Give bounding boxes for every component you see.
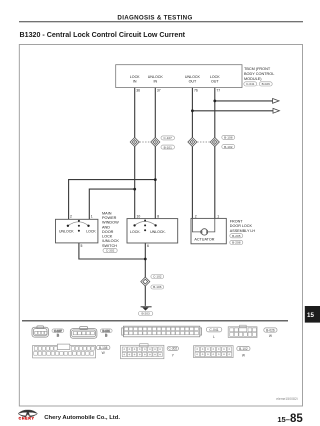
- svg-text:OUT: OUT: [189, 80, 197, 84]
- svg-text:OUT: OUT: [211, 80, 219, 84]
- svg-text:W: W: [269, 334, 273, 338]
- svg-text:UNLOCK: UNLOCK: [185, 75, 201, 79]
- svg-text:1: 1: [91, 215, 93, 219]
- svg-text:B-101: B-101: [102, 329, 110, 333]
- svg-text:W: W: [102, 351, 106, 355]
- svg-text:eleme150082i: eleme150082i: [276, 397, 298, 401]
- svg-text:5: 5: [81, 244, 83, 248]
- svg-text:IN: IN: [133, 80, 137, 84]
- svg-text:15–: 15–: [277, 415, 290, 424]
- svg-text:CHERY: CHERY: [19, 417, 35, 421]
- svg-text:W: W: [242, 353, 246, 357]
- svg-text:8: 8: [157, 215, 159, 219]
- svg-text:DIAGNOSIS & TESTING: DIAGNOSIS & TESTING: [117, 15, 192, 22]
- svg-text:B-026: B-026: [266, 328, 275, 332]
- svg-text:L: L: [213, 335, 215, 339]
- svg-text:B-205: B-205: [232, 234, 241, 238]
- svg-text:B1320 - Central Lock Control C: B1320 - Central Lock Control Circuit Low…: [20, 31, 186, 39]
- svg-text:Y: Y: [172, 353, 175, 357]
- svg-text:C-302: C-302: [106, 249, 115, 253]
- svg-text:B-102: B-102: [239, 347, 248, 351]
- svg-text:UNLOCK: UNLOCK: [59, 230, 74, 234]
- svg-text:ACTUATOR: ACTUATOR: [194, 238, 214, 242]
- svg-text:C-107: C-107: [54, 329, 62, 333]
- svg-text:LOCK: LOCK: [86, 230, 96, 234]
- svg-text:B-102: B-102: [224, 145, 233, 149]
- svg-text:10: 10: [137, 215, 141, 219]
- svg-text:MAIN: MAIN: [102, 211, 112, 215]
- svg-text:C-041: C-041: [209, 328, 218, 332]
- svg-text:C-041: C-041: [246, 82, 255, 86]
- svg-text:DOOR LOCK: DOOR LOCK: [230, 224, 253, 228]
- svg-text:WINDOW: WINDOW: [102, 221, 119, 225]
- svg-text:LOCK: LOCK: [210, 75, 220, 79]
- svg-text:B-108: B-108: [99, 346, 108, 350]
- svg-text:SWITCH: SWITCH: [102, 244, 117, 248]
- svg-text:15: 15: [307, 312, 314, 319]
- svg-text:2: 2: [195, 215, 197, 219]
- svg-text:B-101: B-101: [164, 145, 173, 149]
- svg-text:FRONT: FRONT: [230, 220, 243, 224]
- svg-text:C-107: C-107: [163, 136, 172, 140]
- svg-text:,: ,: [258, 82, 259, 86]
- svg-text:ASSEMBLY LH: ASSEMBLY LH: [230, 229, 256, 233]
- svg-text:AND: AND: [102, 225, 110, 229]
- svg-text:B-208: B-208: [232, 241, 241, 245]
- svg-text:UNLOCK: UNLOCK: [148, 75, 164, 79]
- svg-text:37: 37: [157, 89, 161, 93]
- svg-text:B-106: B-106: [153, 285, 162, 289]
- svg-text:TBCM (FRONT: TBCM (FRONT: [244, 67, 271, 71]
- svg-text:76: 76: [194, 89, 198, 93]
- svg-text:C-302: C-302: [168, 347, 177, 351]
- svg-text:B-108: B-108: [224, 136, 233, 140]
- svg-text:/UNLOCK: /UNLOCK: [102, 239, 119, 243]
- svg-text:UNLOCK.: UNLOCK.: [150, 230, 166, 234]
- svg-text:LOCK: LOCK: [102, 235, 113, 239]
- svg-text:MODULE): MODULE): [244, 77, 262, 81]
- svg-text:IN: IN: [154, 80, 158, 84]
- svg-text:1: 1: [217, 215, 219, 219]
- svg-text:77: 77: [216, 89, 220, 93]
- svg-text:C-102: C-102: [153, 275, 162, 279]
- svg-text:B-203: B-203: [141, 312, 150, 316]
- svg-text:2: 2: [70, 215, 72, 219]
- svg-text:B: B: [57, 333, 59, 337]
- svg-text:B-026: B-026: [262, 82, 271, 86]
- svg-text:LOCK: LOCK: [130, 75, 140, 79]
- svg-text:BODY CONTROL: BODY CONTROL: [244, 72, 274, 76]
- svg-text:85: 85: [290, 413, 303, 425]
- svg-text:B: B: [105, 333, 107, 337]
- svg-text:DOOR: DOOR: [102, 230, 114, 234]
- svg-text:Chery Automobile Co., Ltd.: Chery Automobile Co., Ltd.: [44, 415, 120, 421]
- svg-text:POWER: POWER: [102, 216, 117, 220]
- svg-text:36: 36: [136, 89, 140, 93]
- svg-text:6: 6: [147, 244, 149, 248]
- svg-text:LOCK.: LOCK.: [130, 230, 141, 234]
